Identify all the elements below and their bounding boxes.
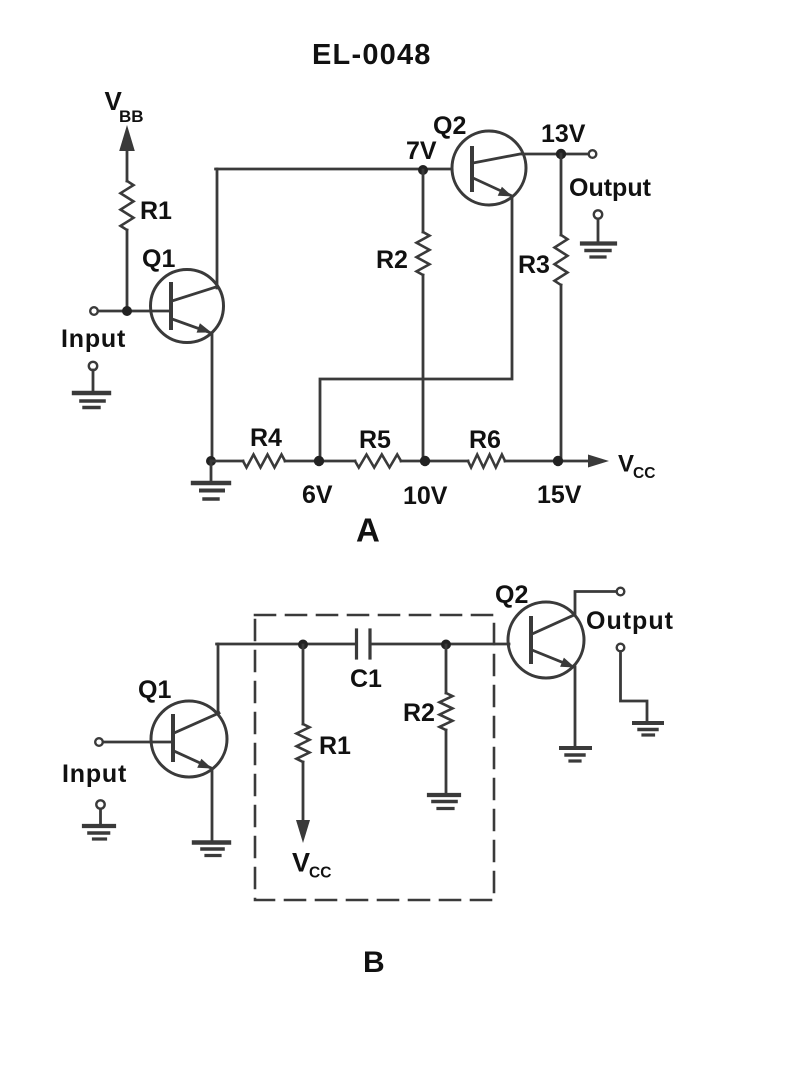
wire Q2 collector to 13V — [522, 153, 588, 156]
wire input to Q1 base (circuit B) — [103, 741, 172, 744]
resistor R2 (circuit B) — [440, 693, 453, 730]
svg-text:R1: R1 — [140, 197, 172, 225]
svg-text:B: B — [363, 946, 385, 979]
wire R3 bottom to 15V node — [560, 285, 563, 461]
resistor R2 (circuit A) — [417, 232, 430, 275]
wire 13V down to R3 — [560, 154, 563, 235]
svg-text:15V: 15V — [537, 481, 582, 509]
svg-text:Q2: Q2 — [433, 112, 466, 140]
input terminal (circuit A) — [90, 307, 98, 315]
output terminal (circuit A) — [589, 150, 597, 158]
wire R5 to 10V node — [401, 460, 468, 463]
input terminal (circuit B) — [95, 738, 103, 746]
ground under Input (circuit B) — [84, 800, 114, 839]
transistor Q1 (circuit A) — [151, 270, 224, 343]
output terminal lower (circuit B) — [617, 644, 625, 652]
VBB supply arrow — [119, 125, 135, 181]
wire R1 bottom to base node — [126, 230, 129, 311]
wire Q1-B emitter down — [211, 769, 214, 841]
transistor Q1 (circuit B) — [151, 701, 227, 777]
node VBB label — [105, 86, 144, 126]
wire C1 to Q2 base (circuit B) — [372, 643, 510, 646]
wire input to Q1 base — [98, 310, 170, 313]
svg-text:EL-0048: EL-0048 — [312, 39, 432, 71]
resistor R3 (circuit A) — [555, 235, 568, 285]
svg-text:R5: R5 — [359, 426, 391, 454]
node R1 junction dot (circuit B) — [298, 640, 308, 650]
ground under Output (circuit A) — [582, 210, 615, 257]
svg-text:Q1: Q1 — [142, 245, 175, 273]
wire rail left segment — [211, 460, 243, 463]
node base junction dot (circuit A) — [122, 306, 132, 316]
svg-text:Q2: Q2 — [495, 581, 528, 609]
svg-text:R4: R4 — [250, 424, 282, 452]
svg-text:CC: CC — [309, 865, 331, 882]
wire Q1 emitter down — [211, 334, 214, 461]
resistor R1 (circuit A) — [121, 181, 134, 230]
svg-text:7V: 7V — [406, 137, 437, 165]
node 15V junction dot — [553, 456, 563, 466]
svg-text:R1: R1 — [319, 732, 351, 760]
wire R2-B from node down — [445, 645, 448, 693]
wire R4 to 6V node — [285, 460, 355, 463]
wire output lower to ground (circuit B) — [621, 652, 648, 723]
output terminal top (circuit B) — [617, 588, 625, 596]
svg-text:R2: R2 — [376, 246, 408, 274]
capacitor C1 — [357, 630, 371, 658]
dashed feedback box — [255, 615, 494, 900]
svg-text:C1: C1 — [350, 665, 382, 693]
wire Q2-B emitter down — [574, 667, 577, 746]
resistor R5 — [355, 455, 401, 468]
svg-text:6V: 6V — [302, 481, 333, 509]
wire 7V node down to R2 — [422, 170, 425, 232]
ground under R2 (circuit B) — [429, 795, 459, 809]
ground at output (circuit B) — [634, 723, 662, 735]
ground under Q1 emitter (circuit B) — [194, 843, 229, 856]
node 13V junction dot — [556, 149, 566, 159]
node 7V junction dot — [418, 165, 428, 175]
svg-text:Input: Input — [62, 760, 127, 788]
wire R1-B from node down — [302, 645, 305, 724]
wire Q1 collector up — [216, 169, 219, 288]
wire main horizontal (circuit B) — [217, 643, 355, 646]
label VCC (circuit A) — [618, 451, 655, 483]
resistor R4 — [243, 455, 285, 468]
node 10V junction dot — [420, 456, 430, 466]
svg-text:V: V — [618, 451, 634, 478]
ground at rail left (circuit A) — [193, 461, 229, 499]
svg-text:BB: BB — [119, 107, 144, 126]
wire R1-B down with VCC arrow — [296, 762, 310, 843]
wire Q2 emitter down-left-down to 6V node — [320, 197, 512, 461]
svg-text:10V: 10V — [403, 482, 448, 510]
wire Q1-B collector up to wire — [217, 644, 220, 713]
svg-text:R6: R6 — [469, 426, 501, 454]
svg-text:Output: Output — [586, 607, 674, 635]
node rail-left junction dot — [206, 456, 216, 466]
node 6V junction dot — [314, 456, 324, 466]
svg-text:R2: R2 — [403, 699, 435, 727]
wire R6 to 15V node and VCC arrow — [505, 455, 609, 468]
node R2 junction dot (circuit B) — [441, 640, 451, 650]
label VCC (circuit B) — [292, 848, 331, 882]
svg-text:R3: R3 — [518, 251, 550, 279]
svg-text:13V: 13V — [541, 120, 586, 148]
svg-text:Output: Output — [569, 174, 652, 202]
svg-text:Q1: Q1 — [138, 676, 171, 704]
wire R2-B down to ground — [445, 730, 448, 793]
ground under Input (circuit A) — [74, 362, 109, 408]
transistor Q2 (circuit A) — [452, 131, 526, 205]
ground under Q2 emitter (circuit B) — [561, 748, 590, 761]
svg-text:A: A — [356, 512, 380, 549]
wire R2 bottom to 10V node — [422, 275, 425, 461]
svg-text:CC: CC — [633, 465, 655, 482]
resistor R1 (circuit B) — [297, 724, 310, 762]
svg-text:Input: Input — [61, 325, 126, 353]
wire Q2-B collector up and right to output — [575, 592, 616, 615]
svg-text:V: V — [292, 848, 310, 878]
resistor R6 — [468, 455, 505, 468]
transistor Q2 (circuit B) — [508, 602, 584, 678]
wire top rail to Q2 base — [216, 168, 452, 171]
